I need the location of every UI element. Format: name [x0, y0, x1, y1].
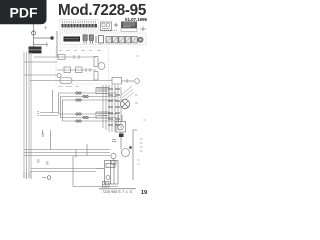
svg-text:PDF: PDF — [10, 4, 38, 20]
svg-text:01.07.1995: 01.07.1995 — [125, 17, 148, 22]
svg-text:7228 955 S. T c. S: 7228 955 S. T c. S — [102, 190, 133, 194]
svg-text:19: 19 — [141, 190, 147, 196]
